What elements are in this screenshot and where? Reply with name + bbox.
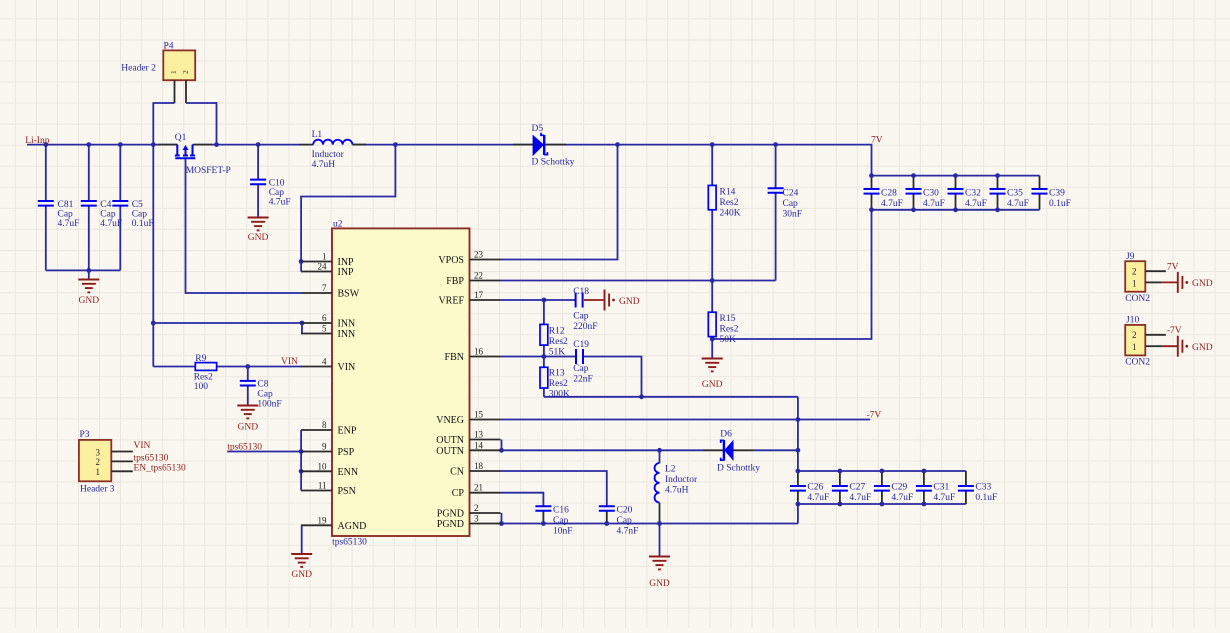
junction	[151, 142, 156, 147]
junction	[796, 448, 801, 453]
wire D5 cathode to 7V elbow	[545, 145, 872, 176]
svg-text:VIN: VIN	[338, 362, 356, 373]
pin 4 VIN	[301, 357, 355, 374]
svg-text:7V: 7V	[871, 136, 883, 146]
ground power port J9	[1161, 272, 1213, 293]
wire R13 bottom lead	[543, 388, 545, 397]
svg-text:FBN: FBN	[445, 352, 464, 363]
svg-text:MOSFET-P: MOSFET-P	[186, 166, 231, 176]
svg-text:Q1: Q1	[175, 133, 187, 143]
pin 24 INP	[301, 262, 354, 279]
svg-text:Res2: Res2	[194, 373, 213, 383]
capacitor C20	[599, 506, 639, 537]
svg-text:C39: C39	[1049, 189, 1065, 199]
wire R13 row to -7V vertical	[544, 396, 798, 398]
svg-text:9: 9	[322, 442, 327, 452]
junction	[869, 207, 874, 212]
svg-text:100: 100	[194, 382, 209, 392]
wire C5 leads	[119, 145, 121, 201]
resistor R14	[708, 185, 740, 218]
capacitor C31	[916, 483, 955, 504]
junction	[43, 142, 48, 147]
svg-text:VPOS: VPOS	[438, 255, 464, 266]
svg-text:0.1uF: 0.1uF	[1049, 199, 1071, 209]
junction	[796, 469, 801, 474]
svg-text:GND: GND	[702, 380, 723, 390]
svg-text:C32: C32	[965, 189, 981, 199]
svg-text:D5: D5	[532, 124, 544, 134]
wire OUTN row to D6	[502, 449, 704, 451]
resistor R9	[194, 354, 217, 392]
wire C20 bottom lead	[606, 511, 608, 524]
wire P4 right leg	[186, 103, 217, 145]
junction	[299, 469, 304, 474]
svg-text:51K: 51K	[549, 348, 566, 358]
wire pos cap 4 leads	[1039, 176, 1041, 189]
svg-text:J9: J9	[1126, 252, 1135, 262]
pin 15 VNEG	[436, 410, 500, 427]
wire pos caps link down to R15 GND	[712, 210, 871, 339]
svg-text:C5: C5	[132, 200, 143, 210]
svg-text:P3: P3	[80, 430, 90, 440]
svg-text:Cap: Cap	[553, 516, 569, 526]
svg-text:220nF: 220nF	[573, 322, 597, 332]
ground power port J10	[1161, 336, 1213, 357]
svg-text:2: 2	[474, 503, 479, 513]
junction	[542, 354, 547, 359]
svg-text:6: 6	[322, 313, 327, 323]
pin 11 PSN	[301, 481, 356, 498]
svg-text:4.7uF: 4.7uF	[923, 199, 945, 209]
pin Q1 source lead	[158, 144, 177, 146]
junction	[299, 449, 304, 454]
junction	[214, 142, 219, 147]
svg-text:22: 22	[474, 271, 483, 281]
wire R15 bottom lead	[711, 337, 713, 359]
svg-text:R12: R12	[549, 327, 565, 337]
ic U2 tps65130	[332, 220, 470, 548]
svg-text:Cap: Cap	[617, 516, 633, 526]
svg-text:300K: 300K	[549, 390, 570, 400]
pin 23 VPOS	[438, 250, 500, 267]
svg-text:tps65130: tps65130	[227, 443, 262, 453]
svg-text:4: 4	[322, 357, 327, 367]
svg-text:AGND: AGND	[338, 521, 367, 532]
svg-text:C81: C81	[58, 200, 74, 210]
svg-text:50K: 50K	[720, 335, 737, 345]
svg-text:22nF: 22nF	[573, 375, 593, 385]
wire C24 top lead	[775, 145, 777, 189]
svg-text:Cap: Cap	[573, 364, 589, 374]
pin P3-1	[111, 470, 133, 472]
wire OUTN pin tie	[501, 440, 503, 451]
wire L1 to D5 anode	[353, 144, 533, 146]
junction	[639, 394, 644, 399]
ground C10	[248, 218, 269, 244]
header P3	[79, 430, 115, 495]
svg-text:GND: GND	[291, 570, 312, 580]
transistor Q1 MOSFET-P	[175, 133, 231, 176]
capacitor C35	[990, 189, 1029, 210]
wire FBP row	[501, 280, 776, 282]
svg-text:240K: 240K	[720, 209, 741, 219]
svg-text:VIN: VIN	[134, 441, 151, 451]
svg-text:1: 1	[169, 70, 178, 74]
svg-text:C10: C10	[269, 179, 285, 189]
svg-text:GND: GND	[1192, 279, 1213, 289]
svg-text:1: 1	[1132, 342, 1137, 352]
svg-text:16: 16	[474, 347, 484, 357]
svg-text:GND: GND	[248, 233, 269, 243]
svg-text:4.7uF: 4.7uF	[891, 493, 913, 503]
inductor L2	[655, 463, 698, 503]
capacitor C19	[573, 340, 593, 385]
svg-text:CN: CN	[450, 467, 464, 478]
junction	[499, 448, 504, 453]
ground R15	[702, 359, 723, 391]
pin 3 PGND	[437, 514, 501, 531]
svg-text:Li-Inp: Li-Inp	[25, 136, 50, 146]
pin 19 AGND	[301, 515, 366, 532]
svg-text:D6: D6	[720, 430, 732, 440]
wire -7V vertical	[797, 397, 799, 471]
svg-text:4.7uF: 4.7uF	[881, 199, 903, 209]
wire INN branch	[153, 322, 302, 324]
ground input caps	[78, 280, 99, 307]
wire R12 top lead	[543, 300, 545, 324]
svg-text:100nF: 100nF	[257, 400, 281, 410]
svg-text:VREF: VREF	[438, 296, 464, 307]
wire Q1 drain to L1	[195, 144, 299, 146]
capacitor C39	[1032, 189, 1071, 210]
ground C8	[237, 406, 258, 433]
capacitor C29	[874, 483, 913, 504]
svg-text:Cap: Cap	[783, 199, 799, 209]
svg-text:15: 15	[474, 410, 484, 420]
wire R13 top lead	[543, 357, 545, 368]
junction	[922, 469, 927, 474]
svg-text:17: 17	[474, 290, 484, 300]
svg-text:CP: CP	[452, 488, 465, 499]
pin J10-2	[1145, 334, 1166, 336]
svg-text:C31: C31	[933, 483, 949, 493]
junction	[86, 142, 91, 147]
svg-text:23: 23	[474, 250, 484, 260]
svg-text:2: 2	[1132, 267, 1137, 277]
wire C16 bottom lead	[542, 511, 544, 524]
pin 9 PSP	[301, 442, 355, 459]
svg-text:Header 3: Header 3	[80, 485, 115, 495]
wire C19 right lead down	[583, 357, 642, 397]
pin 16 FBN	[445, 347, 501, 364]
svg-text:Cap: Cap	[269, 188, 285, 198]
svg-text:13: 13	[474, 430, 484, 440]
svg-text:24: 24	[318, 262, 328, 272]
svg-text:OUTN: OUTN	[436, 435, 464, 446]
capacitor C27	[832, 483, 871, 504]
pin 5 INN	[301, 324, 355, 341]
wire R9 to VIN pin	[217, 366, 302, 368]
junction	[118, 142, 123, 147]
svg-text:Cap: Cap	[100, 210, 116, 220]
pin 17 VREF	[438, 290, 500, 307]
pin 22 FBP	[446, 271, 500, 288]
svg-text:P4: P4	[164, 42, 174, 52]
junction	[995, 173, 1000, 178]
svg-text:GND: GND	[619, 297, 640, 307]
pin P4-1	[174, 80, 176, 103]
wire R14 top lead	[711, 145, 713, 186]
pin 8 ENP	[301, 420, 357, 437]
junction	[838, 502, 843, 507]
ground power port C18	[605, 290, 640, 311]
junction	[911, 207, 916, 212]
junction	[773, 142, 778, 147]
svg-text:Cap: Cap	[132, 210, 148, 220]
svg-text:tps65130: tps65130	[134, 453, 169, 463]
junction	[499, 521, 504, 526]
capacitor C5	[112, 200, 153, 229]
wire R15 top lead	[711, 281, 713, 313]
pin Q1 drain lead	[193, 144, 213, 146]
svg-text:PSP: PSP	[338, 447, 355, 458]
svg-text:Res2: Res2	[720, 325, 739, 335]
capacitor C32	[948, 189, 987, 210]
svg-text:Header 2: Header 2	[121, 64, 156, 74]
wire INN pin tie	[301, 323, 303, 334]
svg-text:-7V: -7V	[867, 411, 882, 421]
resistor R12	[540, 324, 568, 357]
inductor L1	[299, 130, 366, 170]
svg-text:7V: 7V	[1167, 262, 1179, 272]
svg-text:C28: C28	[881, 189, 897, 199]
svg-text:Cap: Cap	[573, 312, 589, 322]
svg-text:4.7uF: 4.7uF	[58, 219, 80, 229]
pin 14 OUTN	[436, 440, 500, 457]
svg-text:10nF: 10nF	[553, 527, 573, 537]
svg-text:-7V: -7V	[1167, 326, 1182, 336]
svg-text:21: 21	[474, 483, 483, 493]
wire neg caps top rail	[798, 470, 966, 472]
svg-text:R15: R15	[720, 314, 736, 324]
junction	[953, 207, 958, 212]
junction	[869, 173, 874, 178]
junction	[953, 173, 958, 178]
svg-text:3: 3	[474, 514, 479, 524]
wire neg caps bottom rail	[798, 503, 966, 505]
capacitor C4	[81, 200, 122, 229]
wire C8 leads	[247, 367, 249, 381]
resistor R13	[540, 367, 570, 399]
svg-text:R13: R13	[549, 369, 565, 379]
wire tps65130 to PSP	[227, 451, 301, 453]
svg-text:GND: GND	[79, 296, 100, 306]
svg-text:GND: GND	[238, 423, 259, 433]
capacitor C16	[535, 506, 572, 537]
svg-text:18: 18	[474, 461, 484, 471]
svg-text:CON2: CON2	[1125, 294, 1150, 304]
connector J9	[1125, 252, 1150, 304]
svg-text:CON2: CON2	[1125, 358, 1150, 368]
wire L1 junction down to INP pins	[301, 145, 395, 272]
junction	[256, 142, 261, 147]
svg-text:10: 10	[318, 461, 328, 471]
junction	[393, 142, 398, 147]
svg-text:PGND: PGND	[437, 509, 464, 520]
pin 1 INP	[301, 252, 354, 269]
junction	[151, 321, 156, 326]
capacitor C30	[906, 189, 945, 210]
svg-text:4.7uH: 4.7uH	[665, 486, 689, 496]
svg-text:GND: GND	[649, 579, 670, 589]
wire pos cap 2 leads	[955, 176, 957, 189]
wire AGND down	[301, 525, 303, 554]
wire C4 leads	[88, 145, 90, 201]
svg-text:2: 2	[1132, 330, 1137, 340]
capacitor C81	[38, 200, 80, 229]
wire R12 bottom lead	[543, 345, 545, 356]
svg-text:4.7uF: 4.7uF	[807, 493, 829, 503]
svg-text:4.7uF: 4.7uF	[933, 493, 955, 503]
diode D5 Schottky	[513, 124, 575, 168]
ground L2	[649, 557, 670, 590]
pin P4-2	[185, 80, 187, 103]
wire L2 bottom to GND	[659, 503, 661, 524]
wire C24 bottom lead to FBP	[775, 193, 777, 281]
svg-text:ENP: ENP	[338, 426, 357, 437]
pin P3-2	[111, 460, 133, 462]
wire VNEG row	[501, 419, 871, 421]
capacitor C10	[250, 179, 291, 208]
svg-text:4.7uF: 4.7uF	[100, 219, 122, 229]
svg-text:Res2: Res2	[549, 337, 568, 347]
svg-text:Res2: Res2	[549, 379, 568, 389]
wire pos cap 1 leads	[913, 176, 915, 189]
capacitor C24	[768, 188, 802, 219]
junction	[615, 142, 620, 147]
svg-text:4.7uF: 4.7uF	[269, 198, 291, 208]
wire GND stub below C4 rail	[88, 270, 90, 279]
pin 13 OUTN	[436, 430, 500, 447]
svg-text:C18: C18	[573, 287, 589, 297]
wire C10 leads	[257, 145, 259, 180]
svg-text:19: 19	[318, 515, 328, 525]
svg-text:1: 1	[96, 467, 101, 477]
ground AGND	[291, 554, 312, 580]
pin 21 CP	[452, 483, 501, 500]
wire neg cap 3 leads	[923, 471, 925, 486]
pin J10-1	[1145, 345, 1161, 347]
svg-text:C29: C29	[891, 483, 907, 493]
svg-text:C4: C4	[100, 200, 111, 210]
svg-text:D Schottky: D Schottky	[717, 464, 760, 474]
svg-text:7: 7	[322, 283, 327, 293]
svg-text:1: 1	[1132, 279, 1137, 289]
svg-text:C33: C33	[975, 483, 991, 493]
capacitor C8	[240, 380, 282, 410]
svg-text:14: 14	[474, 440, 484, 450]
junction	[995, 207, 1000, 212]
svg-text:R14: R14	[720, 188, 736, 198]
svg-text:3: 3	[96, 447, 101, 457]
wire C81 leads	[45, 145, 47, 201]
pin 6 INN	[301, 313, 355, 330]
svg-text:tps65130: tps65130	[332, 538, 367, 548]
pin J9-1	[1145, 281, 1161, 283]
capacitor C33	[958, 483, 997, 504]
svg-text:4.7uF: 4.7uF	[849, 493, 871, 503]
junction	[541, 521, 546, 526]
wire PGND bottom rail	[502, 523, 798, 525]
svg-text:11: 11	[318, 481, 327, 491]
svg-text:5: 5	[322, 324, 327, 334]
pin 2 PGND	[437, 503, 501, 520]
junction	[710, 337, 715, 342]
svg-text:4.7uH: 4.7uH	[312, 160, 336, 170]
wire neg cap 0 leads	[797, 471, 799, 486]
svg-text:Cap: Cap	[257, 390, 273, 400]
wire neg cap 2 leads	[881, 471, 883, 486]
svg-text:C26: C26	[807, 483, 823, 493]
svg-text:u2: u2	[333, 220, 343, 230]
wire Q1 gate to BSW	[186, 158, 302, 293]
wire R14 bottom lead	[711, 210, 713, 281]
junction	[796, 417, 801, 422]
svg-text:Inductor: Inductor	[312, 150, 345, 160]
junction	[710, 142, 715, 147]
wire neg caps link to PGND rail	[797, 504, 799, 524]
svg-text:OUTN: OUTN	[436, 446, 464, 457]
wire C18 right lead to GND port	[584, 299, 604, 301]
junction	[542, 298, 547, 303]
svg-text:J10: J10	[1126, 316, 1139, 326]
svg-text:GND: GND	[1192, 343, 1213, 353]
svg-text:C20: C20	[617, 506, 633, 516]
wire VPOS up to rail	[501, 145, 618, 260]
junction	[604, 521, 609, 526]
svg-text:C24: C24	[783, 189, 799, 199]
svg-text:4.7nF: 4.7nF	[617, 527, 639, 537]
wire neg cap 4 leads	[965, 471, 967, 486]
svg-text:ENN: ENN	[338, 467, 359, 478]
svg-text:L2: L2	[665, 465, 676, 475]
junction	[911, 173, 916, 178]
svg-text:R9: R9	[195, 354, 206, 364]
svg-text:4.7uF: 4.7uF	[965, 199, 987, 209]
wire VREF row	[501, 299, 576, 301]
wire pos cap 0 leads	[871, 176, 873, 189]
svg-text:FBP: FBP	[446, 276, 464, 287]
wire D6 cathode side	[754, 449, 798, 451]
wire VIN row to R9	[153, 366, 195, 368]
svg-text:Cap: Cap	[58, 210, 74, 220]
junction	[86, 268, 91, 273]
svg-text:8: 8	[322, 420, 327, 430]
wire L2 top lead	[659, 450, 661, 463]
pin J9-2	[1145, 270, 1166, 272]
wire PGND pin tie	[501, 513, 503, 524]
capacitor C28	[864, 189, 903, 210]
diode D6 Schottky	[703, 430, 760, 474]
wire neg cap 1 leads	[839, 471, 841, 486]
wire pos caps top rail	[872, 175, 1040, 177]
junction	[657, 521, 662, 526]
wire CP row to C16	[501, 493, 544, 507]
svg-text:1: 1	[322, 252, 327, 262]
wire P4 left leg	[153, 103, 174, 145]
svg-text:C27: C27	[849, 483, 865, 493]
pin 7 BSW	[301, 283, 360, 300]
